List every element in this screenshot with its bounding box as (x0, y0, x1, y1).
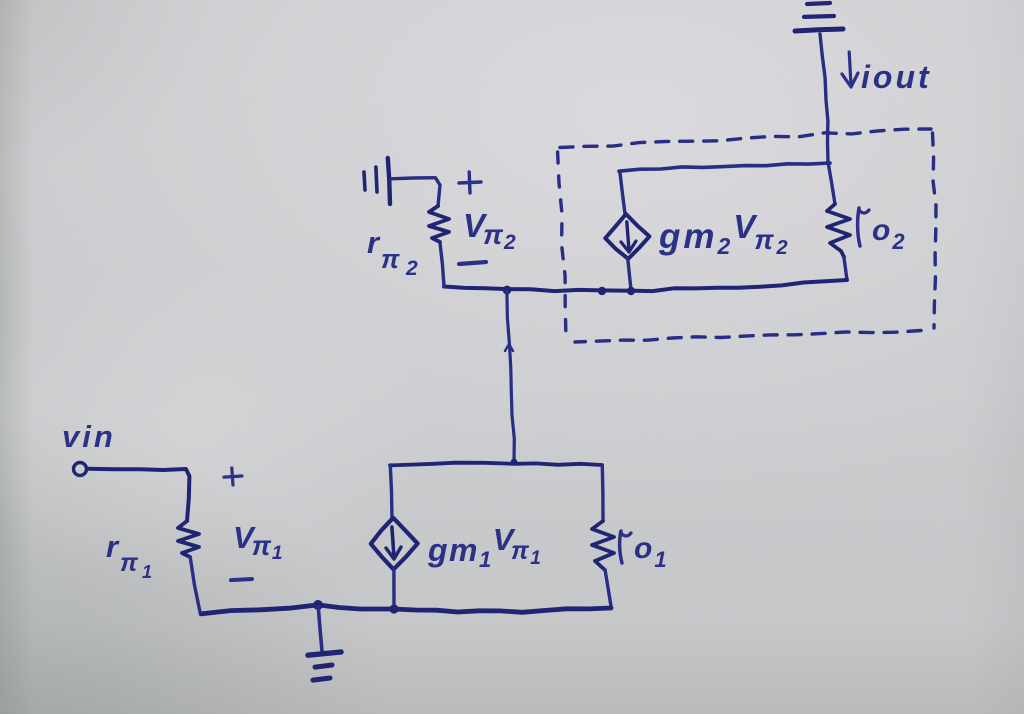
ground (bottom rail) (308, 607, 341, 680)
node junction (interstage tap) (503, 286, 512, 295)
wire gm2 source top lead (620, 172, 625, 214)
current source gm1*vpi1 (diamond, arrow down) (371, 518, 418, 570)
node junction (stage-1 top, interstage) (511, 459, 518, 466)
svg-text:2: 2 (405, 257, 418, 280)
node junction (gm2 bottom) (627, 287, 635, 295)
wire mid node (vpi2- / stage1 top feed) (444, 280, 847, 291)
svg-text:r: r (367, 225, 381, 260)
node vin terminal (74, 463, 87, 476)
label vpi1 (233, 520, 284, 564)
svg-text:iout: iout (861, 59, 932, 95)
label ro2 (858, 208, 907, 254)
label gm2 vpi2 (658, 208, 791, 259)
wire gm1 source top lead (390, 465, 392, 518)
ground (top, output node) (795, 3, 843, 31)
current source gm2*vpi2 (diamond, arrow down) (605, 214, 649, 259)
resistor ro1 (592, 466, 614, 606)
label ro1 (620, 531, 669, 572)
svg-text:vin: vin (62, 419, 116, 454)
resistor rpi1 (178, 521, 200, 612)
node junction (box2 left) (598, 287, 606, 295)
label rpi2 (367, 225, 418, 280)
dashed box (transistor 2 model boundary) (558, 129, 936, 342)
node junction (ground tap) (313, 600, 323, 610)
label + (vpi2 polarity) (459, 172, 481, 193)
label + (vpi1 polarity) (224, 468, 242, 485)
label gm1 vpi1 (427, 522, 542, 572)
label iout with down arrow (842, 52, 932, 95)
label - (vpi1 polarity) (231, 579, 252, 580)
svg-text:π: π (381, 244, 400, 274)
ground (left-facing, at rpi2 top) (364, 158, 390, 204)
wire stage-2 box top (619, 163, 830, 171)
resistor rpi2 (429, 206, 449, 286)
label rpi1 (106, 529, 152, 582)
wire bottom (ground rail) (201, 605, 611, 614)
node junction (gm1 bottom) (389, 604, 398, 613)
wire gm1 source bottom lead (392, 569, 396, 607)
resistor ro2 (827, 163, 850, 280)
wire stage-1 box top (390, 463, 602, 466)
label vpi2 (463, 207, 517, 254)
wire vin to rpi1 (88, 469, 189, 521)
svg-text:1: 1 (142, 562, 152, 582)
wire rpi2 top (391, 178, 440, 206)
label vin (62, 419, 116, 454)
wire gm2 source bottom lead (628, 259, 631, 290)
svg-text:π: π (120, 549, 139, 577)
svg-text:r: r (106, 529, 120, 564)
wire ground to stage-2 top node (820, 34, 828, 163)
wire interstage vertical (505, 291, 514, 462)
label - (vpi2 polarity) (459, 262, 486, 264)
